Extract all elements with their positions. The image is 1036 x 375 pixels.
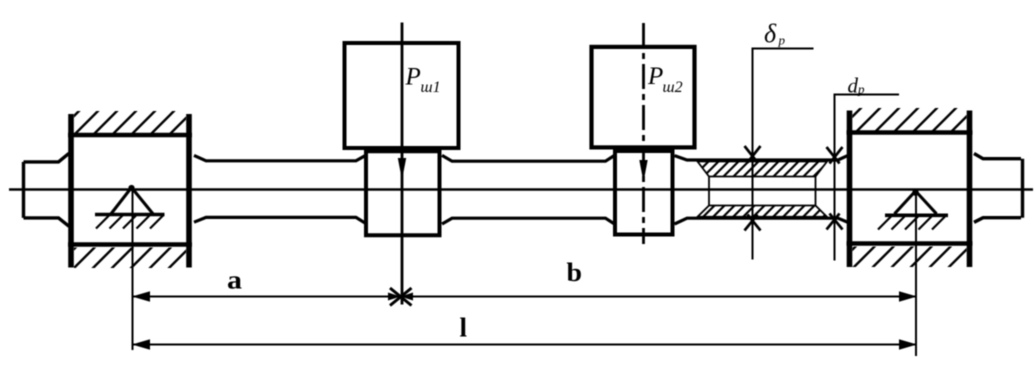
svg-text:P: P <box>405 64 421 91</box>
left stub shaft <box>24 153 70 226</box>
right bearing opening bottom line <box>847 241 973 246</box>
left bearing housing walls <box>71 114 189 268</box>
left support triangle <box>95 185 165 229</box>
delta_p shelf <box>752 48 814 50</box>
svg-text:P: P <box>647 63 663 90</box>
right stub shaft <box>974 154 1023 223</box>
left bearing opening top line <box>68 133 192 138</box>
delta_p extension line <box>752 49 754 260</box>
force line P_sh2 (dashed) <box>642 23 645 244</box>
hub 2 (shaft seat) <box>613 151 675 235</box>
arrow l left <box>132 339 150 350</box>
force arrow P_sh1 <box>398 158 406 180</box>
pulley 2 box <box>592 47 695 147</box>
right bearing top hatch <box>853 108 967 131</box>
right bearing housing walls <box>850 111 970 268</box>
junction X at force line <box>388 288 413 306</box>
svg-text:δ: δ <box>764 19 777 48</box>
arrow l right <box>899 339 917 350</box>
svg-text:d: d <box>848 74 859 98</box>
svg-text:l: l <box>460 313 468 343</box>
d_p shelf <box>834 94 900 96</box>
delta_p arrows <box>745 146 761 231</box>
right bearing opening top line <box>847 130 973 135</box>
svg-text:ш2: ш2 <box>663 79 683 96</box>
right bearing bottom hatch <box>853 247 967 268</box>
force line P_sh1 <box>401 23 404 305</box>
left bearing top hatch <box>74 111 186 133</box>
left bearing bottom hatch <box>74 248 186 269</box>
svg-text:р: р <box>857 82 865 97</box>
svg-text:ш1: ш1 <box>421 79 441 96</box>
left bearing opening bottom line <box>68 242 192 247</box>
shaft span 3 outer lines (hub2 to right bearing, sleeve OD) <box>675 155 849 224</box>
svg-text:a: a <box>227 266 242 295</box>
pulley 1 box <box>345 43 459 148</box>
sleeve inner core <box>709 177 816 206</box>
centerline <box>9 188 1033 190</box>
elastic sleeve top band <box>698 162 828 177</box>
right support extension line <box>915 193 917 356</box>
d_p extension line <box>834 95 836 261</box>
svg-text:р: р <box>778 33 786 48</box>
force arrow P_sh2 <box>639 160 647 182</box>
arrow a left <box>132 291 150 302</box>
left support extension line <box>132 189 134 350</box>
shaft span 2 (hub1 to hub2) <box>442 155 615 224</box>
dimension line a-b <box>133 296 916 298</box>
svg-text:b: b <box>567 258 583 287</box>
shaft span 1 (left bearing to hub1) <box>194 155 366 223</box>
arrow b right <box>899 291 917 302</box>
elastic sleeve bottom band <box>698 206 828 217</box>
right support triangle <box>878 189 948 229</box>
dimension line l <box>133 344 916 346</box>
d_p arrows <box>827 147 843 230</box>
hub 1 (shaft seat) <box>364 151 442 235</box>
